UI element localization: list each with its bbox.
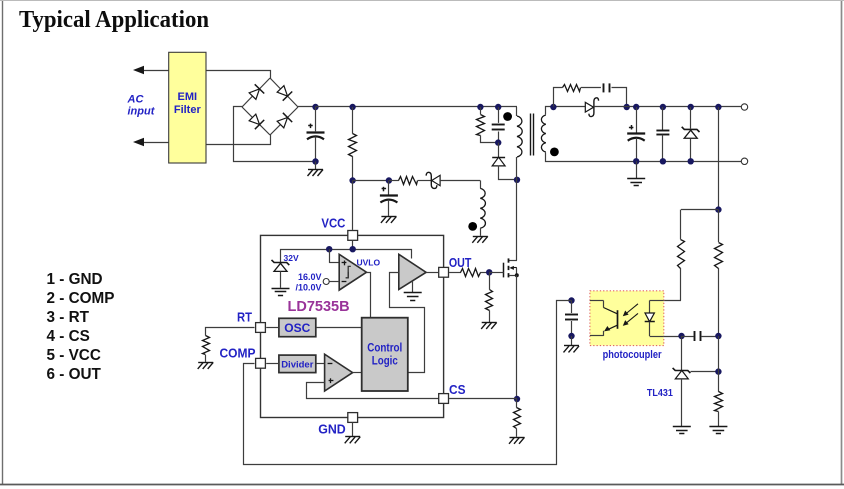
- node snubber left: [550, 104, 556, 110]
- page right border: [841, 0, 843, 485]
- AC input arrow bottom: [133, 138, 169, 146]
- svg-text:6 - OUT: 6 - OUT: [47, 366, 102, 383]
- node bulk cap top: [312, 104, 318, 110]
- output capacitor C5: [627, 107, 645, 161]
- wire DC+ rail: [316, 106, 518, 108]
- wire primary bottom to drain: [516, 157, 518, 261]
- output capacitor C6: [656, 107, 669, 161]
- wire EMI top to bridge: [207, 71, 271, 79]
- wire secondary bottom rail: [546, 153, 745, 162]
- wire UVLO output: [367, 273, 371, 318]
- pin RT: [256, 323, 266, 333]
- wire EMI bottom to bridge: [207, 135, 271, 145]
- bridge diode D1 (left-top edge): [248, 84, 264, 100]
- node TL431 cathode: [678, 333, 684, 339]
- svg-text:EMI: EMI: [178, 91, 198, 103]
- EMI filter block: [169, 52, 206, 163]
- node gate: [486, 269, 492, 275]
- pin list: [47, 271, 115, 383]
- photocoupler LED: [645, 301, 664, 337]
- svg-text:3 - RT: 3 - RT: [47, 309, 90, 326]
- svg-text:GND: GND: [318, 422, 346, 437]
- wire CS: [449, 398, 517, 400]
- node TL431 ref: [715, 368, 721, 374]
- transformer primary winding: [517, 116, 522, 157]
- startup resistor R1: [349, 107, 357, 181]
- svg-text:Filter: Filter: [174, 104, 202, 116]
- ground TL431: [673, 427, 691, 434]
- internal VCC rail: [281, 241, 412, 263]
- wire LED cathode to TL431: [664, 336, 682, 338]
- wire RT to OSC: [266, 327, 279, 329]
- wire feedback to COMP: [244, 301, 572, 465]
- svg-text:4 - CS: 4 - CS: [47, 328, 90, 345]
- ground RT resistor: [198, 362, 214, 369]
- svg-text:LD7535B: LD7535B: [288, 299, 350, 315]
- svg-text:2 - COMP: 2 - COMP: [47, 290, 115, 307]
- compensation cap C8: [682, 331, 719, 341]
- svg-text:OSC: OSC: [284, 321, 310, 335]
- bulk capacitor C1: [307, 107, 325, 162]
- node CS junction: [514, 396, 520, 402]
- UVLO comparator U1A: [329, 249, 366, 290]
- svg-text:16.0V: 16.0V: [298, 272, 322, 282]
- wire VCC down to pin: [352, 181, 354, 230]
- bridge diode D4 (bottom-right edge): [276, 113, 292, 129]
- wire TL431 ref: [691, 371, 719, 373]
- svg-text:OUT: OUT: [449, 255, 472, 270]
- ground photocoupler: [564, 336, 580, 352]
- RT resistor R11: [203, 328, 255, 362]
- node divider mid top: [715, 333, 721, 339]
- node internal VCC 2: [350, 246, 356, 252]
- aux winding phase dot: [468, 222, 477, 231]
- IC body U1: [261, 235, 444, 417]
- svg-text:/10.0V: /10.0V: [295, 282, 321, 292]
- OSC block: [279, 318, 316, 336]
- bridge diode D2 (top-right edge): [276, 84, 292, 100]
- Control Logic block: [362, 318, 408, 391]
- svg-text:UVLO: UVLO: [357, 257, 381, 267]
- ground divider: [709, 427, 727, 434]
- secondary phase dot: [550, 148, 559, 157]
- ground internal zener: [272, 289, 290, 296]
- wire VCC junction to aux branch: [353, 180, 389, 182]
- label 16.0V: [298, 272, 322, 282]
- node bulk cap bottom: [312, 158, 318, 164]
- gate resistor R8: [449, 269, 489, 277]
- output terminal plus: [741, 104, 747, 110]
- output rectifier diode D7: [585, 98, 598, 117]
- pin CS: [439, 394, 449, 404]
- ground primary (bulk cap): [308, 162, 324, 177]
- gate driver U1B: [399, 254, 438, 289]
- label photocoupler: [603, 349, 663, 361]
- wire MOSFET source: [516, 275, 518, 399]
- MOSFET Q1: [504, 258, 519, 277]
- node output cap2 top: [660, 104, 666, 110]
- svg-text:photocoupler: photocoupler: [603, 349, 663, 361]
- node photocoupler emitter: [568, 333, 574, 339]
- svg-text:1 - GND: 1 - GND: [47, 271, 103, 288]
- gate pulldown resistor R9: [486, 272, 493, 322]
- svg-text:CS: CS: [449, 382, 466, 397]
- LED bias resistor R5: [664, 210, 685, 301]
- svg-text:TL431: TL431: [647, 387, 673, 399]
- bridge diode D3 (left-bottom edge): [248, 113, 264, 129]
- secondary snubber resistor R4: [554, 85, 601, 107]
- label COMP: [220, 346, 256, 361]
- ground CS resistor: [509, 437, 525, 444]
- node clamp RC bottom: [495, 139, 501, 145]
- wire COMP to Divider: [266, 363, 279, 365]
- svg-text:Control: Control: [367, 343, 402, 355]
- node internal VCC 1: [326, 246, 332, 252]
- page top border: [0, 0, 844, 2]
- svg-text:Logic: Logic: [372, 355, 399, 367]
- wire secondary top: [546, 107, 586, 115]
- output terminal minus: [741, 158, 747, 164]
- node VCC junction: [349, 177, 355, 183]
- clamp capacitor C3: [492, 107, 505, 143]
- node snubber right: [624, 104, 630, 110]
- aux winding T1-aux: [480, 188, 485, 228]
- node sense split: [715, 206, 721, 212]
- UVLO threshold terminal: [323, 279, 339, 285]
- label OUT: [449, 255, 472, 270]
- transformer secondary winding: [541, 115, 545, 152]
- label TL431: [647, 387, 673, 399]
- svg-text:COMP: COMP: [220, 346, 256, 361]
- photocoupler box: [590, 291, 664, 346]
- AC input arrow top: [133, 66, 169, 74]
- PWM comparator U1C: [325, 354, 353, 391]
- ground driver: [404, 281, 422, 301]
- clamp resistor R3: [477, 107, 499, 143]
- wire bridge output to bulk cap: [298, 106, 316, 108]
- node clamp resistor top: [477, 104, 483, 110]
- ground VCC cap: [381, 216, 397, 223]
- pin GND: [348, 413, 358, 423]
- node clamp to drain: [514, 177, 520, 183]
- ground aux winding: [472, 236, 488, 243]
- svg-text:32V: 32V: [284, 253, 299, 263]
- label VCC: [321, 216, 346, 231]
- divider upper resistor R6: [715, 210, 723, 336]
- label 32V: [284, 253, 299, 263]
- svg-text:AC: AC: [127, 94, 145, 106]
- wire comparator plus input: [307, 383, 439, 399]
- output zener diode D8: [682, 107, 700, 161]
- node sense line top: [715, 104, 721, 110]
- label UVLO: [357, 257, 381, 267]
- svg-text:Typical Application: Typical Application: [19, 6, 209, 33]
- label AC input: [127, 94, 156, 118]
- node output zener top: [688, 104, 694, 110]
- label CS: [449, 382, 466, 397]
- label LD7535B: [288, 299, 350, 315]
- ground gate pulldown: [481, 322, 497, 329]
- photocoupler filter cap C7: [565, 301, 578, 337]
- label RT: [237, 309, 252, 324]
- ground GND pin: [345, 422, 361, 443]
- label /10.0V: [295, 282, 321, 292]
- wire gate: [489, 272, 503, 274]
- wire secondary output rail: [594, 106, 744, 108]
- node photocoupler collector: [568, 297, 574, 303]
- node clamp cap top: [495, 104, 501, 110]
- node startup resistor top: [349, 104, 355, 110]
- node output zener bottom: [688, 158, 694, 164]
- aux series resistor R2: [389, 177, 431, 185]
- node output cap2 bottom: [660, 158, 666, 164]
- pin OUT: [439, 267, 449, 277]
- pin COMP: [256, 358, 266, 368]
- photocoupler light arrows: [623, 304, 638, 326]
- page left border: [2, 0, 4, 485]
- node output cap bottom: [633, 158, 639, 164]
- svg-text:5 - VCC: 5 - VCC: [47, 347, 101, 364]
- transformer core: [531, 114, 534, 156]
- title Typical Application: [19, 6, 209, 33]
- secondary snubber cap C4: [604, 83, 627, 106]
- wire sense to LED branch: [681, 209, 718, 211]
- primary phase dot: [503, 112, 512, 121]
- label GND: [318, 422, 346, 437]
- bridge diamond wires: [242, 78, 298, 135]
- wire aux winding bottom: [480, 228, 482, 236]
- wire OSC to control logic: [316, 327, 362, 329]
- wire driver input: [390, 273, 425, 373]
- wire Divider to comparator: [316, 363, 325, 365]
- wire comparator output: [353, 372, 362, 374]
- svg-text:RT: RT: [237, 309, 252, 324]
- ground secondary: [627, 161, 645, 185]
- node output cap top: [633, 104, 639, 110]
- svg-text:VCC: VCC: [321, 216, 346, 231]
- wire DC+ to primary: [516, 107, 518, 116]
- wire aux winding top: [480, 181, 482, 189]
- VCC capacitor C2: [380, 181, 398, 216]
- TL431 U2: [673, 336, 691, 426]
- pin VCC: [348, 231, 358, 241]
- photocoupler phototransistor: [590, 301, 618, 336]
- wire sense line: [718, 107, 720, 210]
- clamp diode D6: [492, 143, 516, 180]
- aux rectifier diode D5: [426, 172, 480, 188]
- page bottom rule: [0, 484, 844, 486]
- wire bridge negative loop: [234, 107, 313, 162]
- Divider block: [279, 355, 316, 373]
- node VCC cap top: [386, 177, 392, 183]
- internal zener 32V: [272, 260, 290, 288]
- divider lower resistor R7: [715, 336, 723, 426]
- svg-text:input: input: [128, 106, 156, 118]
- current sense resistor R10: [514, 399, 521, 437]
- svg-text:Divider: Divider: [281, 359, 314, 370]
